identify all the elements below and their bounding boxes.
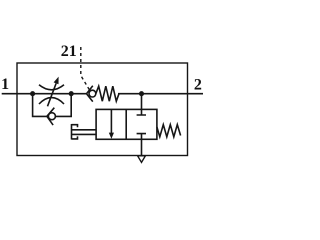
svg-text:2: 2 [194,76,202,93]
svg-text:1: 1 [1,76,9,93]
svg-text:21: 21 [61,43,77,60]
